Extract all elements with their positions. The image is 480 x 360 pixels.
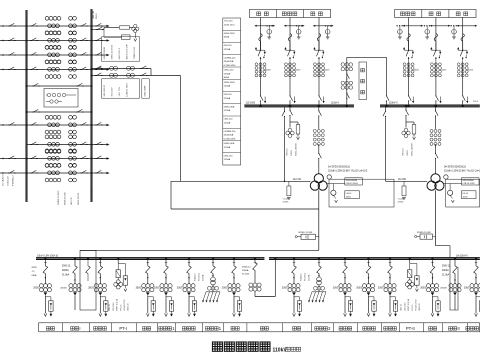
svg-text:2# SFZ9-20000/110: 2# SFZ9-20000/110 xyxy=(444,165,467,168)
legend table of 110kV equipment xyxy=(223,18,241,165)
svg-text:PT-II: PT-II xyxy=(406,326,415,331)
section tie CT cluster xyxy=(249,283,253,287)
bus PT (three-phase clover) xyxy=(134,24,137,27)
svg-text:0.25/0.5/5/5: 0.25/0.5/5/5 xyxy=(224,65,236,67)
bus tie right disconnect xyxy=(386,95,388,96)
svg-text:DW6-110B: DW6-110B xyxy=(224,143,235,145)
station transformer feeder at x=213: bus tap xyxy=(212,257,214,259)
svg-text:100/5: 100/5 xyxy=(346,196,352,198)
feeder disconnect truck xyxy=(164,266,169,274)
wire split xyxy=(290,121,298,123)
wire: right stub from bus B xyxy=(92,158,109,160)
svg-text:1250A: 1250A xyxy=(224,146,231,149)
disconnect on right stub xyxy=(95,144,96,146)
bus tie right riser wire xyxy=(386,57,388,94)
feeder breaker contact (triangle) xyxy=(343,292,347,295)
svg-text:200/5: 200/5 xyxy=(33,288,39,290)
transformer HV disconnect lower xyxy=(318,152,320,153)
disconnect with earthing switches xyxy=(408,50,409,51)
svg-text:1250A: 1250A xyxy=(224,72,231,75)
incoming cubicle II outline xyxy=(450,260,458,310)
disconnect at bus A side xyxy=(30,158,31,160)
svg-text:GW4-110D: GW4-110D xyxy=(224,33,235,35)
bus B PT branch wire xyxy=(92,29,105,31)
feeder CT cluster xyxy=(470,284,474,288)
wire to bus xyxy=(260,63,262,95)
station transformer winding circles xyxy=(317,277,322,282)
disconnect at bus B side xyxy=(80,124,81,126)
svg-text:300/5: 300/5 xyxy=(333,288,339,290)
wire bus A to bus B xyxy=(27,40,92,42)
feeder CT cluster xyxy=(39,284,43,288)
svg-text:LM 10kV-II: LM 10kV-II xyxy=(456,254,468,257)
drawing title xyxy=(212,342,222,351)
cable termination box xyxy=(237,301,241,311)
disconnect at bus A side xyxy=(30,25,31,27)
cable termination box xyxy=(436,301,440,311)
line trap (wave trap coil) xyxy=(288,34,291,42)
svg-text:BYMD-12-W8: BYMD-12-W8 xyxy=(299,232,313,234)
incoming bus tap xyxy=(74,257,76,259)
bus PT bay at x=290: disconnect xyxy=(289,105,292,108)
svg-text:JSZW-10: JSZW-10 xyxy=(128,304,130,311)
feeder CT cluster xyxy=(384,284,388,288)
CT/winding cluster 2 xyxy=(69,45,73,49)
disconnect PT branch xyxy=(96,29,97,31)
wire: right stub from bus B xyxy=(92,124,109,126)
110kV bus I xyxy=(244,105,354,107)
svg-text:10kV-I LMY-100×10: 10kV-I LMY-100×10 xyxy=(37,254,59,257)
station tx disconnect xyxy=(317,266,322,274)
LV distribution comb xyxy=(212,285,214,292)
10kV feeder at x=166: bus tap xyxy=(165,257,167,259)
svg-text:Y5WZ-100/260: Y5WZ-100/260 xyxy=(295,143,297,156)
svg-text:JSZW-10: JSZW-10 xyxy=(419,304,421,311)
wire: right stub from bus B xyxy=(92,69,109,71)
disconnect on left stub xyxy=(8,124,9,126)
PT arrester branch xyxy=(118,264,125,276)
CT/winding cluster 1 xyxy=(45,115,49,119)
disconnect at bus A side xyxy=(30,69,31,71)
svg-text:GW5-35GDW: GW5-35GDW xyxy=(104,47,106,59)
svg-text:110kV: 110kV xyxy=(273,347,288,353)
svg-text:2000A: 2000A xyxy=(442,269,449,272)
bus tie disconnect xyxy=(346,73,348,74)
line tap bar with arrows xyxy=(314,25,333,27)
transformer HV CT stack 3x4 xyxy=(430,130,433,133)
disconnect above bus xyxy=(462,95,464,96)
disconnect on left stub xyxy=(8,158,9,160)
feeder outgoing wire xyxy=(432,295,434,313)
CT/winding cluster 1 xyxy=(45,149,49,153)
disconnect on left stub xyxy=(8,40,9,42)
svg-text:JN15-35: JN15-35 xyxy=(71,197,73,205)
wire: right stub from bus B xyxy=(92,144,109,146)
CT stack 3x4 xyxy=(430,63,433,66)
svg-text:100/5: 100/5 xyxy=(463,196,469,198)
110kV line name header boxes xyxy=(395,10,476,18)
10kV feeder at x=100.3: bus tap xyxy=(99,257,101,259)
svg-text:24000/5A: 24000/5A xyxy=(224,134,234,137)
svg-text:TYD-110: TYD-110 xyxy=(403,149,405,156)
svg-text:ZN28-35/1250: ZN28-35/1250 xyxy=(65,191,67,205)
transformer HV disconnect lower xyxy=(435,152,437,153)
svg-text:110/0.1/0.5: 110/0.1/0.5 xyxy=(224,24,236,26)
10kV PT feeder at x=410.5: bus tap xyxy=(409,257,411,259)
T2 neutral arrester box xyxy=(403,181,405,186)
disconnect at bus B side xyxy=(80,40,81,42)
disconnect on left stub xyxy=(8,172,9,174)
svg-text:HY5WS-17/50: HY5WS-17/50 xyxy=(124,300,126,312)
T2 LV arrester BYMD box xyxy=(420,234,433,239)
svg-text:315kVA: 315kVA xyxy=(201,274,204,281)
svg-text:DW-110: DW-110 xyxy=(224,45,233,47)
transformer HV bay at x=318.8: disconnect below bus xyxy=(318,105,321,108)
feeder disconnect truck xyxy=(388,266,393,274)
feeder outgoing wire xyxy=(188,295,190,313)
disconnect above bus xyxy=(289,95,291,96)
10kV feeder at x=189: bus tap xyxy=(188,257,190,259)
feeder disconnect truck xyxy=(343,266,348,274)
feeder breaker contact (triangle) xyxy=(44,292,48,295)
station tx CT row xyxy=(314,286,318,290)
wire: feeder row y=55 xyxy=(0,54,27,56)
disconnect with earthing switches xyxy=(289,50,290,51)
feeder outgoing wire xyxy=(293,295,295,313)
svg-text:300/5: 300/5 xyxy=(88,288,94,290)
surge arrester with ground xyxy=(453,26,455,30)
svg-text:110±8×1.25%/10.5kV YN,d11 Ud=1: 110±8×1.25%/10.5kV YN,d11 Ud=10.5 xyxy=(328,169,368,172)
svg-text:300/5: 300/5 xyxy=(154,288,160,290)
110kV line bay at x=319: incoming wire xyxy=(318,18,320,50)
cable termination box xyxy=(169,301,173,311)
disconnect at bus B side xyxy=(80,69,81,71)
disconnect on right stub xyxy=(95,172,96,174)
disconnect at bus A side xyxy=(30,54,31,56)
svg-text:Y1.5W5-: Y1.5W5- xyxy=(398,199,406,201)
svg-text:600/5: 600/5 xyxy=(441,70,447,72)
10kV bus section II xyxy=(269,257,480,259)
section tie right drop wire xyxy=(274,257,276,259)
disconnect with earthing switches xyxy=(462,50,463,51)
feeder CT cluster xyxy=(228,284,232,288)
earthing switch arrow xyxy=(440,97,442,102)
10kV feeder at x=432.5: bus tap xyxy=(431,257,433,259)
cable termination box xyxy=(192,301,196,311)
svg-text:SN-10/0.4: SN-10/0.4 xyxy=(304,273,306,281)
PT arrester box xyxy=(123,276,127,285)
feeder CT cluster xyxy=(94,284,98,288)
bus PT three-phase clover xyxy=(288,128,292,132)
main transformer 1# (three winding circles) xyxy=(314,174,323,183)
svg-text:JDZX9-35 0.5/3P: JDZX9-35 0.5/3P xyxy=(126,43,128,59)
svg-text:112-1W: 112-1W xyxy=(293,179,302,181)
10kV feeder at x=476: bus tap xyxy=(475,257,477,259)
earthing PT circle xyxy=(331,190,336,195)
feeder CT cluster xyxy=(160,284,164,288)
feeder breaker contact (triangle) xyxy=(146,292,150,295)
arrester branch wire xyxy=(104,30,122,38)
feeder CT cluster xyxy=(288,284,292,288)
wire: feeder row y=173 xyxy=(0,172,27,174)
CT/winding cluster 2 xyxy=(69,115,73,119)
svg-text:600/5: 600/5 xyxy=(414,70,420,72)
feeder outgoing wire xyxy=(99,295,101,313)
disconnect at bus A side xyxy=(30,40,31,42)
incoming disconnect xyxy=(73,266,78,274)
feeder disconnect truck xyxy=(474,266,479,274)
svg-text:LZZB6-35 600/5: LZZB6-35 600/5 xyxy=(58,190,60,205)
cable termination box xyxy=(104,301,108,311)
svg-text:630A: 630A xyxy=(32,274,37,277)
feeder name table xyxy=(39,323,480,332)
svg-text:Y1.5W5-: Y1.5W5- xyxy=(283,199,291,201)
feeder outgoing wire xyxy=(233,295,235,313)
feeder outgoing wire xyxy=(389,295,391,313)
transfer feeder bottom wire xyxy=(92,75,181,77)
tie row with switch only y=112 xyxy=(27,111,92,113)
svg-text:Y5WZ-100/260: Y5WZ-100/260 xyxy=(411,143,413,156)
feeder CT cluster xyxy=(339,284,343,288)
earthing PT circle xyxy=(448,190,453,195)
disconnect on left stub xyxy=(8,69,9,71)
wire bus A to bus B xyxy=(27,25,92,27)
CT/winding cluster 2 xyxy=(69,16,73,20)
disconnect above bus xyxy=(318,95,320,96)
cable branch wire xyxy=(234,297,240,301)
10kV feeder at x=390: bus tap xyxy=(389,257,391,259)
disconnect on right stub xyxy=(95,40,96,42)
feeder disconnect truck xyxy=(187,266,192,274)
svg-text:SN-10/0.4: SN-10/0.4 xyxy=(198,273,200,281)
earthing switch arrow xyxy=(323,97,325,102)
CT stack 3x4 xyxy=(255,63,258,66)
svg-text:35kV-I: 35kV-I xyxy=(96,13,98,19)
wire: right stub from bus B xyxy=(92,54,109,56)
svg-text:600/5: 600/5 xyxy=(266,70,272,72)
svg-text:300/5: 300/5 xyxy=(420,288,426,290)
svg-text:35/10.5kV: 35/10.5kV xyxy=(112,87,114,97)
feeder CT cluster xyxy=(362,284,366,288)
cable branch wire xyxy=(294,297,300,301)
CT/winding cluster 2 xyxy=(69,149,73,153)
svg-text:1W2-1W: 1W2-1W xyxy=(93,11,95,19)
ground arrow of PT branch xyxy=(134,33,136,39)
line tap bar with arrows xyxy=(404,25,423,27)
cable branch wire xyxy=(433,297,439,301)
svg-text:BYMD-12-W8: BYMD-12-W8 xyxy=(417,232,431,234)
svg-text:LZWB6-110: LZWB6-110 xyxy=(224,131,236,133)
feeder disconnect truck xyxy=(43,266,48,274)
disconnect at bus B side xyxy=(80,144,81,146)
disconnect above bus xyxy=(435,95,437,96)
station transformer feeder at x=319: bus tap xyxy=(318,257,320,259)
svg-text:LW2-110: LW2-110 xyxy=(224,155,233,157)
T1 LV drop wire xyxy=(318,190,320,250)
svg-text:GN2-6G/600: GN2-6G/600 xyxy=(346,180,358,182)
feeder outgoing wire xyxy=(344,295,346,313)
svg-text:0.25/0.5/5/5: 0.25/0.5/5/5 xyxy=(224,138,236,140)
line tap bar with arrows xyxy=(256,25,275,27)
bus tie: left riser wire xyxy=(346,57,348,104)
svg-text:72/186: 72/186 xyxy=(398,202,404,204)
bus PT bay at x=406: disconnect xyxy=(405,105,408,108)
svg-text:1# SFZ9-20000/110: 1# SFZ9-20000/110 xyxy=(328,165,351,168)
feeder disconnect truck xyxy=(146,266,151,274)
svg-text:SC(B)9-C: SC(B)9-C xyxy=(301,273,303,281)
CT/winding cluster 2 xyxy=(69,60,73,64)
disconnects on transfer feeder xyxy=(95,68,96,70)
cable termination box xyxy=(348,301,352,311)
disconnect at bus A side xyxy=(30,172,31,174)
station tx CT row xyxy=(208,286,212,290)
feeder outgoing wire xyxy=(368,295,370,313)
bus tie disconnect lower xyxy=(346,92,348,93)
label box GN2 xyxy=(462,178,480,185)
svg-text:300/5: 300/5 xyxy=(378,288,384,290)
svg-text:300/5: 300/5 xyxy=(282,288,288,290)
svg-text:630A: 630A xyxy=(224,36,230,39)
110kV line bay at x=408.6: incoming wire xyxy=(408,18,410,50)
feeder disconnect truck xyxy=(232,266,237,274)
svg-text:31.5kA: 31.5kA xyxy=(442,274,450,277)
earthing switch arrow xyxy=(264,97,266,102)
svg-text:2000A: 2000A xyxy=(62,269,69,272)
svg-text:LN-10: LN-10 xyxy=(346,193,352,195)
transfer wire horizontal y=181.3 (112-1W line) xyxy=(171,180,311,182)
wire to bus xyxy=(318,63,320,95)
PT arrester branch xyxy=(410,264,417,276)
incoming breaker triangle xyxy=(453,292,457,295)
svg-text:XRNP-10 0.5A: XRNP-10 0.5A xyxy=(116,298,119,311)
wire to bus xyxy=(408,63,410,95)
CT/winding cluster 2 xyxy=(69,135,73,139)
wire bus A to bus B xyxy=(27,158,92,160)
svg-text:GW4-35DW: GW4-35DW xyxy=(145,86,147,97)
svg-text:GW5C-40.5/630: GW5C-40.5/630 xyxy=(112,44,114,59)
incoming breaker triangle xyxy=(73,292,77,295)
svg-text:TYD-110: TYD-110 xyxy=(287,149,289,156)
equipment label column right xyxy=(142,79,150,98)
10kV feeder at x=294: bus tap xyxy=(293,257,295,259)
svg-text:DW-110: DW-110 xyxy=(224,94,233,96)
wire to bus xyxy=(289,63,291,95)
svg-text:XGN2-12Z: XGN2-12Z xyxy=(8,176,10,186)
surge arrester with ground xyxy=(426,26,428,30)
transformer HV CT stack 3x4 xyxy=(313,130,316,133)
wire bus A to bus B xyxy=(27,54,92,56)
bus arrester box xyxy=(412,125,416,135)
svg-text:PT-I: PT-I xyxy=(119,326,127,331)
disconnect with earthing switches xyxy=(260,50,261,51)
wire: feeder row y=69.5 xyxy=(0,69,27,71)
disconnect at bus A side xyxy=(30,144,31,146)
110kV line name header boxes xyxy=(249,10,330,18)
cable termination box xyxy=(49,301,53,311)
10kV feeder at x=345: bus tap xyxy=(344,257,346,259)
110kV line bay at x=462.7: incoming wire xyxy=(462,18,464,50)
incoming CT cluster xyxy=(449,284,453,288)
wire: feeder row y=40.5 xyxy=(0,40,27,42)
svg-text:24000/5A: 24000/5A xyxy=(224,60,234,63)
CT/winding cluster 1 xyxy=(45,135,49,139)
svg-text:JDZJ-10: JDZJ-10 xyxy=(109,304,111,311)
feeder outgoing wire xyxy=(147,295,149,313)
station transformer winding circles xyxy=(211,277,216,282)
T1 neutral arrester box xyxy=(288,181,290,186)
svg-text:40kA: 40kA xyxy=(224,76,230,79)
disconnect on right stub xyxy=(95,158,96,160)
110kV bus II xyxy=(380,105,480,107)
disconnect on left stub xyxy=(8,54,9,56)
svg-text:110kV-I: 110kV-I xyxy=(331,102,339,105)
station tx disconnect xyxy=(211,266,216,274)
CT/winding cluster 2 xyxy=(69,31,73,35)
disconnect on right stub xyxy=(95,54,96,56)
feeder outgoing wire xyxy=(475,295,477,313)
110kV line bay at x=435.9: incoming wire xyxy=(435,18,437,50)
feeder breaker contact (triangle) xyxy=(367,292,371,295)
wire to bus xyxy=(435,63,437,95)
PT fuse box xyxy=(117,263,119,270)
svg-text:TYD-110: TYD-110 xyxy=(224,21,233,23)
svg-text:1250A: 1250A xyxy=(224,158,231,161)
feeder breaker contact (triangle) xyxy=(474,292,478,295)
cubicle I inner switch column xyxy=(87,260,89,266)
disconnect with earthing switches xyxy=(435,50,436,51)
svg-text:300/5: 300/5 xyxy=(356,288,362,290)
svg-text:DW6-110B: DW6-110B xyxy=(224,106,235,108)
transfer feeder top wire xyxy=(92,68,152,70)
feeder breaker contact (triangle) xyxy=(431,292,435,295)
feeder breaker contact (triangle) xyxy=(388,292,392,295)
35kV bus A (vertical busbar) xyxy=(25,10,27,202)
LV distribution comb xyxy=(318,285,320,292)
bypass riser to T1: disconnect below bus xyxy=(284,107,286,110)
disconnect at bus B side xyxy=(80,54,81,56)
svg-text:XRNP-10 0.5A: XRNP-10 0.5A xyxy=(407,298,410,311)
svg-text:600/5: 600/5 xyxy=(295,70,301,72)
10kV feeder at x=368.5: bus tap xyxy=(367,257,369,259)
feeder disconnect truck xyxy=(430,266,435,274)
svg-text:110kV-II: 110kV-II xyxy=(389,102,398,105)
svg-text:1250A: 1250A xyxy=(224,109,231,112)
wire: feeder row y=158.5 xyxy=(0,158,27,160)
bus tie label box xyxy=(359,62,367,100)
10kV feeder at x=45.4: bus tap xyxy=(44,257,46,259)
transfer wire horizontal y=209 to T1 LV drop xyxy=(171,208,319,210)
svg-text:II: II xyxy=(457,326,459,331)
CT/winding cluster 2 xyxy=(69,163,73,167)
auxiliary panel box with windings xyxy=(44,89,78,108)
svg-text:10/0.1/3kV: 10/0.1/3kV xyxy=(113,302,115,311)
cable branch wire xyxy=(45,297,51,301)
10kV feeder at x=147.8: bus tap xyxy=(147,257,149,259)
svg-text:ZN28: ZN28 xyxy=(32,267,38,269)
wire: feeder row y=125 xyxy=(0,124,27,126)
svg-text:2000/5: 2000/5 xyxy=(60,288,67,290)
line trap (wave trap coil) xyxy=(317,34,320,42)
svg-text:300/5: 300/5 xyxy=(177,288,183,290)
CT/winding cluster 1 xyxy=(45,163,49,167)
disconnect on right stub xyxy=(95,124,96,126)
disconnect on right stub xyxy=(95,69,96,71)
cable termination box xyxy=(479,301,480,311)
cable branch wire xyxy=(369,297,375,301)
feeder CT cluster xyxy=(183,284,187,288)
svg-text:10/0.1/3kV: 10/0.1/3kV xyxy=(404,302,406,311)
feeder outgoing wire xyxy=(165,295,167,313)
